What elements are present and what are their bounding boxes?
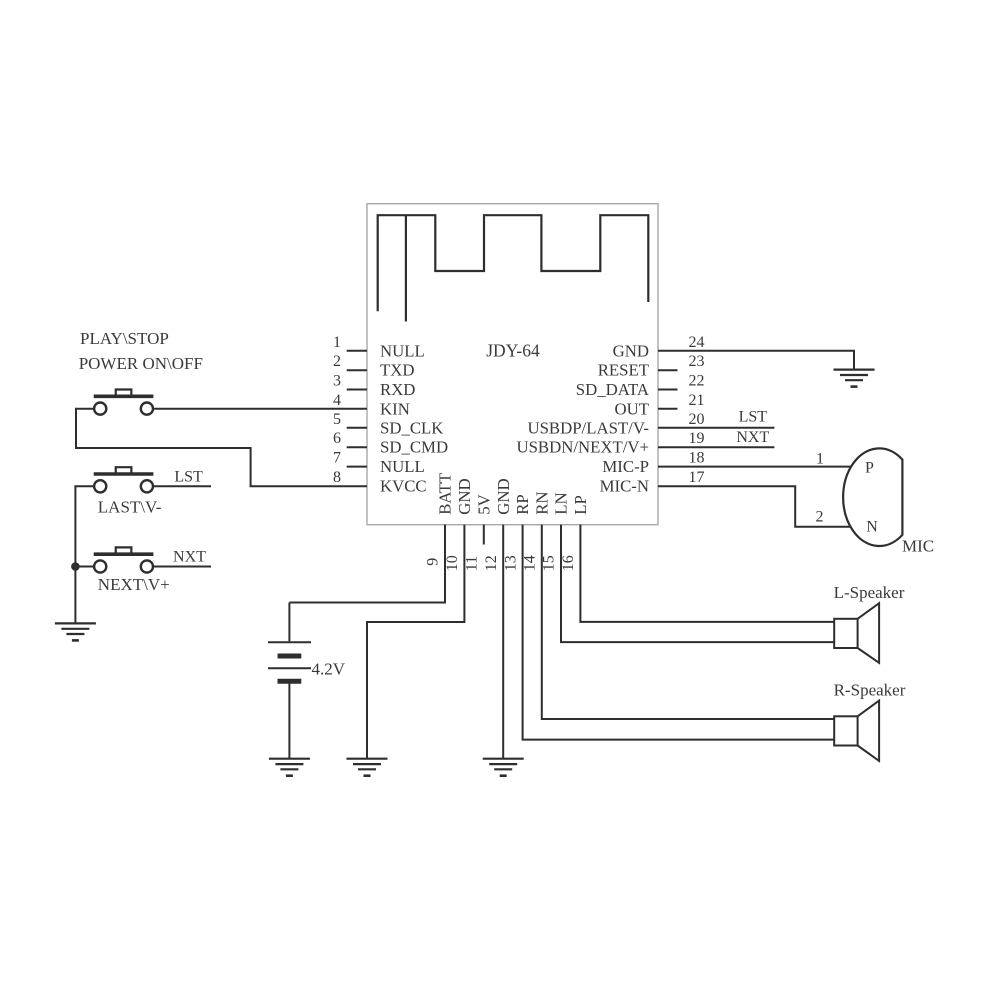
ground G4 (pin 12): [483, 759, 524, 776]
svg-text:POWER ON\OFF: POWER ON\OFF: [79, 354, 203, 373]
pin 6 label SD_CMD: [380, 438, 448, 457]
wire S2 right terminal LST stub: [153, 485, 211, 487]
pin 19 number: [689, 430, 705, 447]
pin 11 number (rotated): [464, 556, 481, 571]
svg-text:NEXT\V+: NEXT\V+: [98, 575, 170, 594]
pin 23 label RESET: [598, 361, 649, 380]
pin 10 number (rotated): [444, 555, 461, 571]
wire pin 16 LP to L-speaker top: [580, 525, 834, 622]
mic pin 2 number: [816, 509, 824, 526]
label NEXT\V+: [98, 575, 170, 594]
wire pin 20 LST stub: [658, 427, 774, 429]
pin 17 number: [689, 469, 705, 486]
svg-text:14: 14: [522, 555, 539, 571]
svg-text:13: 13: [502, 555, 519, 571]
wire pin 19 NXT stub: [658, 446, 774, 448]
svg-text:N: N: [866, 518, 878, 535]
pin 12 number (rotated): [483, 555, 500, 571]
svg-text:NXT: NXT: [173, 548, 206, 565]
pin 4 label KIN: [380, 399, 410, 418]
speaker LS2 R-Speaker: [834, 701, 879, 761]
svg-text:GND: GND: [494, 478, 513, 514]
pin 10 label GND (rotated): [455, 478, 474, 514]
pin 2 number: [333, 353, 341, 370]
pin 22 label SD_DATA: [576, 380, 649, 399]
pin 23 number: [689, 353, 705, 370]
pin 1 stub (NULL): [347, 350, 367, 352]
svg-text:MIC-N: MIC-N: [600, 477, 649, 496]
svg-text:19: 19: [689, 430, 705, 447]
svg-text:5: 5: [333, 411, 341, 428]
svg-text:L-Speaker: L-Speaker: [834, 583, 905, 602]
pin 5 stub (SD_CLK): [347, 427, 367, 429]
svg-text:NULL: NULL: [380, 457, 425, 476]
wire pin 11 5V stub: [483, 525, 485, 545]
svg-text:USBDN/NEXT/V+: USBDN/NEXT/V+: [516, 438, 649, 457]
pin 22 stub (SD_DATA): [658, 389, 678, 391]
pin 21 label OUT: [615, 399, 650, 418]
svg-text:LP: LP: [571, 495, 590, 515]
microphone MK1: [843, 448, 902, 546]
pushbutton S1 PLAY/STOP POWER: [94, 390, 154, 415]
svg-text:OUT: OUT: [615, 399, 650, 418]
pin 3 label RXD: [380, 380, 415, 399]
junction dot at S2/S3 ground net: [71, 562, 80, 571]
mic terminal label P: [865, 459, 874, 476]
svg-text:23: 23: [689, 353, 705, 370]
pin 7 number: [333, 450, 341, 467]
wire S1 right terminal to pin 4 KIN: [153, 408, 367, 410]
mic terminal label N: [866, 518, 878, 535]
net label LST (right): [739, 409, 768, 426]
pushbutton S3 NEXT/V+: [94, 547, 154, 572]
pin 2 stub (TXD): [347, 369, 367, 371]
svg-text:BATT: BATT: [436, 473, 455, 515]
svg-text:LST: LST: [739, 409, 768, 426]
pin 14 label RN (rotated): [532, 491, 551, 514]
battery value 4.2V: [312, 659, 346, 678]
pin 16 number (rotated): [560, 555, 577, 571]
pushbutton S2 LAST/V-: [94, 467, 154, 492]
svg-text:4: 4: [333, 392, 341, 409]
svg-text:LAST\V-: LAST\V-: [98, 498, 162, 517]
antenna waveform inside U1: [378, 215, 649, 321]
svg-text:GND: GND: [455, 478, 474, 514]
pin 9 number (rotated): [425, 558, 442, 566]
mic pin 1 number: [816, 451, 824, 468]
wire pin 14 RN to R-speaker top: [542, 525, 834, 719]
pin 5 number: [333, 411, 341, 428]
pin 18 number: [689, 450, 705, 467]
svg-text:3: 3: [333, 373, 341, 390]
pin 8 label KVCC: [380, 477, 427, 496]
pin 19 label USBDN/NEXT/V+: [516, 438, 649, 457]
pin 2 label TXD: [380, 361, 415, 380]
pin 3 stub (RXD): [347, 389, 367, 391]
wire S2 left terminal down to ground: [75, 486, 94, 623]
pin 7 stub (NULL): [347, 466, 367, 468]
svg-text:11: 11: [464, 556, 481, 571]
pin 21 number: [689, 392, 705, 409]
ground G2 (battery): [269, 759, 310, 776]
svg-text:USBDP/LAST/V-: USBDP/LAST/V-: [527, 418, 649, 437]
svg-text:LN: LN: [552, 492, 571, 514]
pin 9 label BATT (rotated): [436, 473, 455, 515]
pin 11 label 5V (rotated): [474, 494, 493, 515]
pin 20 label USBDP/LAST/V-: [527, 418, 649, 437]
svg-text:22: 22: [689, 373, 705, 390]
svg-text:NULL: NULL: [380, 341, 425, 360]
svg-text:2: 2: [333, 353, 341, 370]
wire pin 18 MIC-P to microphone P: [658, 466, 854, 468]
wire pin 13 RP to R-speaker bottom: [523, 525, 835, 740]
svg-text:RP: RP: [513, 494, 532, 515]
wire pin 9 BATT down to battery: [289, 525, 445, 603]
pin 1 number: [333, 334, 341, 351]
ground G1 (buttons): [55, 623, 96, 640]
speaker LS1 L-Speaker: [834, 603, 879, 663]
svg-text:KIN: KIN: [380, 399, 410, 418]
pin 13 number (rotated): [502, 555, 519, 571]
svg-text:MIC-P: MIC-P: [602, 457, 649, 476]
svg-text:18: 18: [689, 450, 705, 467]
svg-text:SD_CLK: SD_CLK: [380, 418, 443, 437]
wire pin 12 GND down to ground: [502, 525, 504, 759]
pin 6 number: [333, 430, 341, 447]
svg-text:15: 15: [541, 555, 558, 571]
svg-text:24: 24: [689, 334, 705, 351]
label LAST\V-: [98, 498, 162, 517]
svg-text:SD_DATA: SD_DATA: [576, 380, 649, 399]
wire S3 right terminal NXT stub: [153, 566, 211, 568]
ground G5 (pin 24): [834, 370, 875, 387]
pin 20 number: [689, 411, 705, 428]
pin 5 label SD_CLK: [380, 418, 443, 437]
svg-text:8: 8: [333, 469, 341, 486]
svg-text:20: 20: [689, 411, 705, 428]
pin 17 label MIC-N: [600, 477, 649, 496]
svg-text:7: 7: [333, 450, 341, 467]
svg-text:12: 12: [483, 555, 500, 571]
label L-Speaker: [834, 583, 905, 602]
svg-text:MIC: MIC: [902, 536, 934, 555]
pin 4 number: [333, 392, 341, 409]
IC U1 JDY-64 body: [367, 204, 658, 525]
U1 part name JDY-64: [486, 340, 540, 360]
svg-text:P: P: [865, 459, 874, 476]
pin 18 label MIC-P: [602, 457, 649, 476]
svg-text:1: 1: [333, 334, 341, 351]
svg-text:21: 21: [689, 392, 705, 409]
svg-text:RN: RN: [532, 491, 551, 514]
wire pin 10 GND down-left to ground: [367, 525, 464, 759]
svg-text:16: 16: [560, 555, 577, 571]
pin 21 stub (OUT): [658, 408, 678, 410]
wire pin 17 MIC-N to microphone N: [658, 486, 855, 527]
pin 1 label NULL: [380, 341, 425, 360]
pin 15 label LN (rotated): [552, 492, 571, 514]
pin 24 label GND: [613, 341, 649, 360]
wire S1 left terminal down and over to pin 8 KVCC: [76, 409, 367, 486]
net label NXT (left): [173, 548, 206, 565]
label PLAY\STOP: [80, 329, 169, 348]
svg-text:LST: LST: [174, 469, 203, 486]
svg-text:TXD: TXD: [380, 361, 415, 380]
svg-text:SD_CMD: SD_CMD: [380, 438, 448, 457]
net label NXT (right): [736, 429, 769, 446]
pin 24 number: [689, 334, 705, 351]
svg-text:JDY-64: JDY-64: [486, 340, 540, 360]
svg-text:PLAY\STOP: PLAY\STOP: [80, 329, 169, 348]
svg-text:6: 6: [333, 430, 341, 447]
svg-text:1: 1: [816, 451, 824, 468]
svg-text:2: 2: [816, 509, 824, 526]
pin 6 stub (SD_CMD): [347, 446, 367, 448]
svg-text:17: 17: [689, 469, 705, 486]
battery BT1: [268, 603, 311, 759]
label R-Speaker: [834, 680, 906, 699]
label POWER ON\OFF: [79, 354, 203, 373]
pin 7 label NULL: [380, 457, 425, 476]
ground G3 (pin 10): [347, 759, 388, 776]
net label LST (left): [174, 469, 203, 486]
svg-text:RESET: RESET: [598, 361, 649, 380]
pin 22 number: [689, 373, 705, 390]
svg-text:10: 10: [444, 555, 461, 571]
svg-text:RXD: RXD: [380, 380, 415, 399]
svg-text:5V: 5V: [474, 494, 493, 515]
wire pin 24 GND to ground: [658, 351, 854, 370]
label MIC: [902, 536, 934, 555]
wire pin 15 LN to L-speaker bottom: [561, 525, 834, 642]
pin 12 label GND (rotated): [494, 478, 513, 514]
pin 16 label LP (rotated): [571, 495, 590, 515]
svg-text:NXT: NXT: [736, 429, 769, 446]
pin 14 number (rotated): [522, 555, 539, 571]
svg-text:GND: GND: [613, 341, 649, 360]
pin 8 number: [333, 469, 341, 486]
svg-text:R-Speaker: R-Speaker: [834, 680, 906, 699]
pin 3 number: [333, 373, 341, 390]
pin 13 label RP (rotated): [513, 494, 532, 515]
svg-text:KVCC: KVCC: [380, 477, 427, 496]
svg-text:9: 9: [425, 558, 442, 566]
svg-text:4.2V: 4.2V: [312, 659, 346, 678]
pin 23 stub (RESET): [658, 369, 678, 371]
wire S3 left terminal to junction: [75, 566, 94, 568]
pin 15 number (rotated): [541, 555, 558, 571]
